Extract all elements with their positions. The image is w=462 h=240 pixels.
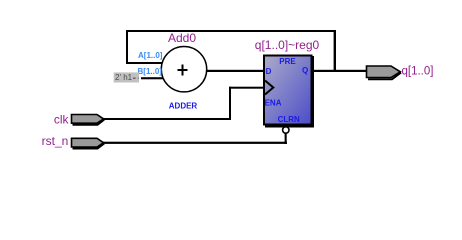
svg-text:q[1..0]: q[1..0]: [402, 66, 434, 78]
svg-text:ENA: ENA: [265, 99, 282, 108]
svg-text:PRE: PRE: [279, 57, 296, 66]
register bottom shadow: [265, 125, 314, 128]
svg-text:rst_n: rst_n: [42, 134, 69, 148]
wire clk horizontal: [102, 118, 231, 120]
svg-text:Add0: Add0: [168, 31, 196, 45]
svg-text:A[1..0]: A[1..0]: [138, 51, 163, 60]
wire rst_n vertical to CLRN bubble: [285, 133, 287, 144]
svg-text:clk: clk: [54, 112, 70, 126]
input pin rst_n symbol: [72, 138, 105, 148]
adder plus sign: [178, 65, 188, 76]
svg-text:q[1..0]~reg0: q[1..0]~reg0: [255, 38, 320, 52]
constant dashed connection: [133, 77, 139, 79]
wire feedback top segment: [126, 30, 336, 32]
svg-text:B[1..0]: B[1..0]: [138, 67, 163, 76]
svg-text:D: D: [266, 67, 272, 76]
wire adder output to D: [206, 70, 265, 72]
wire adder input B: [141, 77, 163, 79]
output pin q[1..0] symbol: [367, 66, 402, 79]
svg-text:Q: Q: [302, 66, 308, 75]
svg-text:CLRN: CLRN: [278, 115, 300, 124]
wire Q output: [312, 70, 367, 72]
register CLRN bubble: [283, 127, 289, 133]
svg-text:2' h1: 2' h1: [115, 73, 133, 82]
wire clk to clock triangle: [229, 87, 265, 89]
adder U Add0 circle: [161, 46, 206, 91]
input pin clk symbol: [72, 115, 105, 125]
wire adder input A: [126, 62, 162, 64]
constant 2'h1 box: [114, 72, 139, 82]
wire feedback left vertical: [126, 30, 128, 64]
wire rst_n horizontal: [102, 142, 287, 144]
wire clk vertical: [229, 87, 231, 120]
register q[1..0]~reg0 body: [264, 56, 312, 125]
register clock triangle: [265, 81, 273, 95]
register right shadow: [312, 56, 315, 127]
wire feedback right vertical: [334, 30, 336, 72]
svg-text:ADDER: ADDER: [169, 102, 198, 111]
